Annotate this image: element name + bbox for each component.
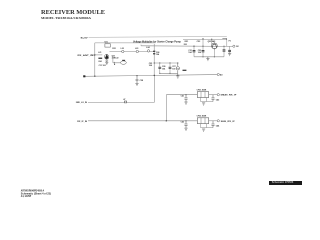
svg-text:CF22 455K: CF22 455K [197,115,207,118]
svg-text:C23: C23 [197,41,202,43]
svg-text:3SK122: 3SK122 [112,58,119,60]
svg-text:MODEL TRX8516A/CRX8804A: MODEL TRX8516A/CRX8804A [41,16,92,20]
varactor D22 oval [121,61,127,64]
connector start square [83,75,85,77]
capacitor C22 [202,39,204,57]
wire: LO line [88,101,155,103]
wire: left border vertical [94,43,96,76]
wire: LO vertical [154,75,156,102]
svg-text:Schematic (Sheet 4 of 23): Schematic (Sheet 4 of 23) [21,192,51,195]
svg-text:C28: C28 [140,80,143,82]
wire: filter row1 feed [166,94,197,96]
connector bracket above terminal [222,38,226,40]
tick junction [114,62,116,64]
wire: antenna input [91,54,102,56]
wire: faint 9V top line [89,36,227,39]
capacitor C28 on IF line [136,76,139,84]
node: junction dots [94,38,225,121]
svg-text:PJ: PJ [229,40,231,42]
wire: multiplier rail [141,45,233,48]
filter ground pins [201,124,214,128]
wire: mixer row lower [160,72,178,74]
wire: multiplier upper line [183,39,227,46]
svg-text:40: 40 [220,74,223,77]
bead L23 [136,50,138,52]
svg-text:SUB_RX_IF: SUB_RX_IF [221,121,236,123]
svg-text:D21: D21 [185,41,190,43]
wire: RF row with beads [110,51,155,53]
wire: multiplier lower rail [194,56,224,58]
capacitor C23 [223,46,225,57]
transistor Q22 [212,43,218,49]
svg-text:224: 224 [98,60,102,63]
footer text block [21,189,51,198]
capacitor on Q1 emitter [106,59,109,62]
capacitor C41 [184,95,187,102]
svg-text:C44: C44 [216,125,220,128]
svg-text:RX_IF_IN: RX_IF_IN [77,121,87,123]
capacitor C14 [159,63,161,73]
svg-text:104: 104 [162,67,166,70]
svg-text:B+9V: B+9V [81,37,89,39]
ground [184,102,187,104]
terminal IF out [217,73,219,75]
svg-text:L22: L22 [121,48,124,50]
capacitor C21 [193,46,195,57]
svg-text:47: 47 [123,98,125,101]
svg-text:220: 220 [184,44,187,46]
svg-text:R21: R21 [112,48,115,50]
ground below lower rail [206,57,209,61]
svg-text:104: 104 [198,51,202,54]
capacitor C42 [211,95,214,102]
terminal SUB RX IF [217,120,219,122]
wire: filter row1 out [209,94,218,96]
svg-text:T21: T21 [104,41,107,43]
svg-text:A4, HX/SP: A4, HX/SP [21,195,32,198]
svg-text:ARTWORK#8PD4056-A: ARTWORK#8PD4056-A [21,189,45,192]
wire: C9 vertical [153,44,155,75]
wire: long IF line (sloped) [84,75,217,77]
svg-text:104: 104 [188,51,192,54]
filter ground pins [201,98,214,102]
wire: mixer ground stub [177,73,179,75]
svg-text:CF21 455K: CF21 455K [197,89,207,92]
electrolytic C16 [177,63,179,73]
terminal MAIN RX IF [217,94,219,96]
wire: mixer row upper [154,62,178,64]
ceramic filter CF22 [197,118,208,124]
ground [184,128,187,130]
capacitor C9 series on vertical [153,51,155,55]
svg-text:C42: C42 [216,98,219,101]
svg-text:C43: C43 [181,121,184,124]
svg-text:103: 103 [172,68,175,70]
capacitor C43 [184,121,187,128]
ground [105,62,108,64]
ground [228,54,231,56]
svg-text:104: 104 [156,53,160,56]
wire: filter row2 out [209,120,218,122]
wire: lower RX IF long line [88,120,197,122]
svg-text:MAIN_RX_IF: MAIN_RX_IF [221,94,238,97]
ground [135,83,138,85]
capacitor C24b with ground [229,46,231,53]
svg-text:2ND_LO_IN: 2ND_LO_IN [76,102,88,104]
transistor Q1 [104,54,108,58]
resistor dash R22 [183,70,187,71]
svg-text:C11 102: C11 102 [99,65,106,67]
wire: upper rail [95,42,156,44]
capacitor C44 [211,121,214,128]
svg-text:C41: C41 [181,94,184,97]
svg-text:Voltage Multiplier for Starter: Voltage Multiplier for Starter Charge Pu… [133,40,181,44]
svg-text:L21: L21 [98,52,101,54]
wire: filter row vertical feed [165,95,167,121]
wire: FL1 input [113,58,121,63]
svg-text:RX_ANT_IN--: RX_ANT_IN-- [78,54,96,57]
ground below mixer [176,76,179,78]
capacitor C15 [169,63,171,73]
footer right black label [269,181,303,185]
svg-text:L24: L24 [146,46,150,49]
svg-text:104: 104 [149,64,153,67]
terminal 9V out [233,45,235,47]
svg-text:L23: L23 [135,48,138,50]
bead L24 [147,50,149,52]
svg-text:9V: 9V [236,46,239,48]
transformer T1 on rail [105,44,110,47]
ceramic filter CF21 [197,92,208,98]
bead L22 [122,50,124,52]
